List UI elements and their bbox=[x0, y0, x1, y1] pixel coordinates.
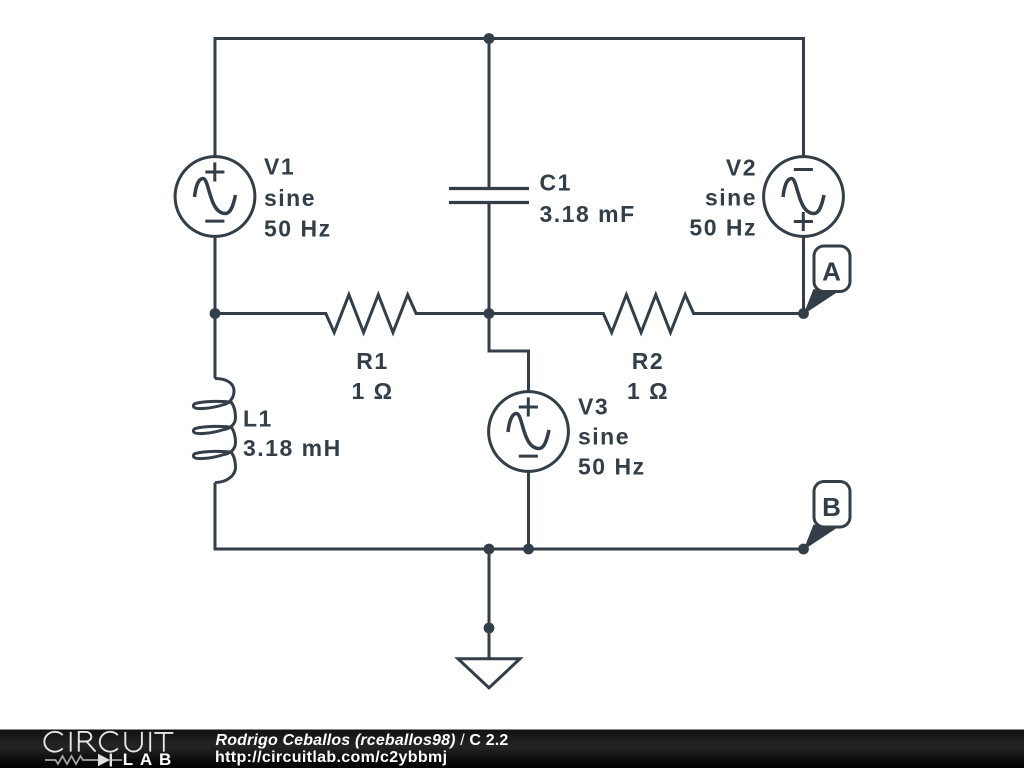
CircuitLab logo resistor-diode glyph bbox=[45, 756, 122, 764]
junction dot ground bbox=[484, 623, 495, 634]
voltage source V2 bbox=[764, 157, 844, 237]
resistor R2 bbox=[489, 295, 804, 333]
wire V3 to bottom rail bbox=[527, 471, 530, 549]
svg-text:C1: C1 bbox=[540, 170, 572, 196]
wire ground lower stem bbox=[488, 628, 491, 659]
node B flag box bbox=[814, 482, 850, 528]
svg-text:50 Hz: 50 Hz bbox=[578, 454, 646, 480]
capacitor C1 bbox=[449, 189, 529, 203]
svg-text:50 Hz: 50 Hz bbox=[689, 215, 757, 241]
svg-text:R2: R2 bbox=[632, 348, 664, 374]
wire V2 to node A bbox=[802, 236, 805, 314]
svg-text:http://circuitlab.com/c2ybbmj: http://circuitlab.com/c2ybbmj bbox=[215, 749, 447, 766]
inductor L1 bbox=[193, 379, 235, 483]
wire left rail lower (V1 to node) bbox=[214, 236, 217, 314]
wire V3 branch jog bbox=[489, 314, 529, 393]
svg-text:sine: sine bbox=[264, 185, 316, 211]
svg-text:sine: sine bbox=[705, 185, 757, 211]
voltage source V3 bbox=[489, 392, 569, 472]
junction dot top rail bbox=[484, 33, 495, 44]
wire left rail to L1 bbox=[214, 314, 217, 379]
svg-text:LAB: LAB bbox=[123, 750, 178, 768]
svg-text:R1: R1 bbox=[356, 348, 388, 374]
svg-text:3.18 mF: 3.18 mF bbox=[540, 201, 636, 227]
svg-text:50 Hz: 50 Hz bbox=[264, 216, 332, 242]
wire mid vertical upper (top rail to C1) bbox=[488, 39, 491, 189]
junction dot bottom rail left bbox=[484, 544, 495, 555]
ground symbol bbox=[458, 659, 520, 688]
node A flag box bbox=[814, 246, 850, 292]
junction dot left node bbox=[210, 308, 221, 319]
voltage source V1 bbox=[175, 157, 255, 237]
junction dot node B bbox=[798, 544, 809, 555]
wire ground stem bbox=[488, 549, 491, 628]
svg-text:Rodrigo Ceballos (rceballos98): Rodrigo Ceballos (rceballos98) / C 2.2 bbox=[216, 732, 509, 749]
svg-text:V2: V2 bbox=[726, 155, 757, 181]
svg-text:A: A bbox=[822, 257, 841, 287]
junction dot node A bbox=[798, 308, 809, 319]
node A flag stem bbox=[804, 289, 837, 315]
resistor R1 bbox=[215, 295, 489, 333]
svg-text:V1: V1 bbox=[264, 154, 295, 180]
node B flag stem bbox=[804, 525, 837, 551]
junction dot bottom rail V3 bbox=[523, 544, 534, 555]
wire bottom rail with left corner riser bbox=[215, 483, 804, 550]
wire mid vertical lower (C1 to node) bbox=[488, 203, 491, 314]
CircuitLab logo wordmark CIRCUIT bbox=[44, 732, 173, 752]
wire top rail with corner drops bbox=[215, 39, 804, 158]
svg-text:sine: sine bbox=[578, 424, 630, 450]
svg-text:B: B bbox=[822, 492, 841, 522]
junction dot mid node bbox=[484, 308, 495, 319]
svg-text:1 Ω: 1 Ω bbox=[627, 378, 669, 404]
svg-text:1 Ω: 1 Ω bbox=[351, 378, 393, 404]
svg-text:3.18 mH: 3.18 mH bbox=[243, 435, 342, 461]
svg-text:L1: L1 bbox=[243, 406, 273, 432]
svg-text:V3: V3 bbox=[578, 394, 609, 420]
